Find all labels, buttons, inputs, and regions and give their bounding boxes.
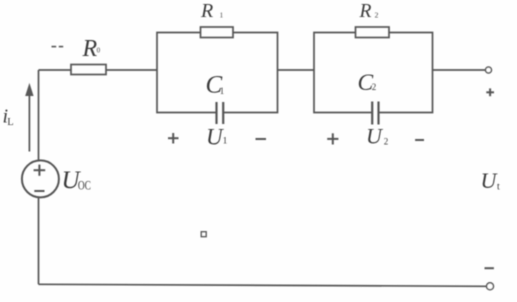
svg-text:L: L	[7, 117, 13, 128]
svg-text:t: t	[497, 181, 500, 192]
svg-text:U: U	[481, 168, 499, 193]
svg-text:2: 2	[375, 10, 379, 19]
svg-text:1: 1	[220, 86, 225, 96]
svg-text:2: 2	[372, 82, 377, 92]
svg-text:R: R	[82, 36, 98, 62]
svg-text:R: R	[200, 0, 213, 22]
svg-text:U: U	[366, 123, 384, 148]
svg-text:U: U	[206, 125, 224, 150]
svg-text:OC: OC	[78, 177, 91, 192]
svg-text:1: 1	[220, 11, 224, 19]
svg-text:2: 2	[384, 136, 389, 146]
svg-text:0: 0	[97, 47, 101, 55]
svg-text:1: 1	[223, 137, 228, 147]
svg-text:R: R	[359, 1, 372, 22]
